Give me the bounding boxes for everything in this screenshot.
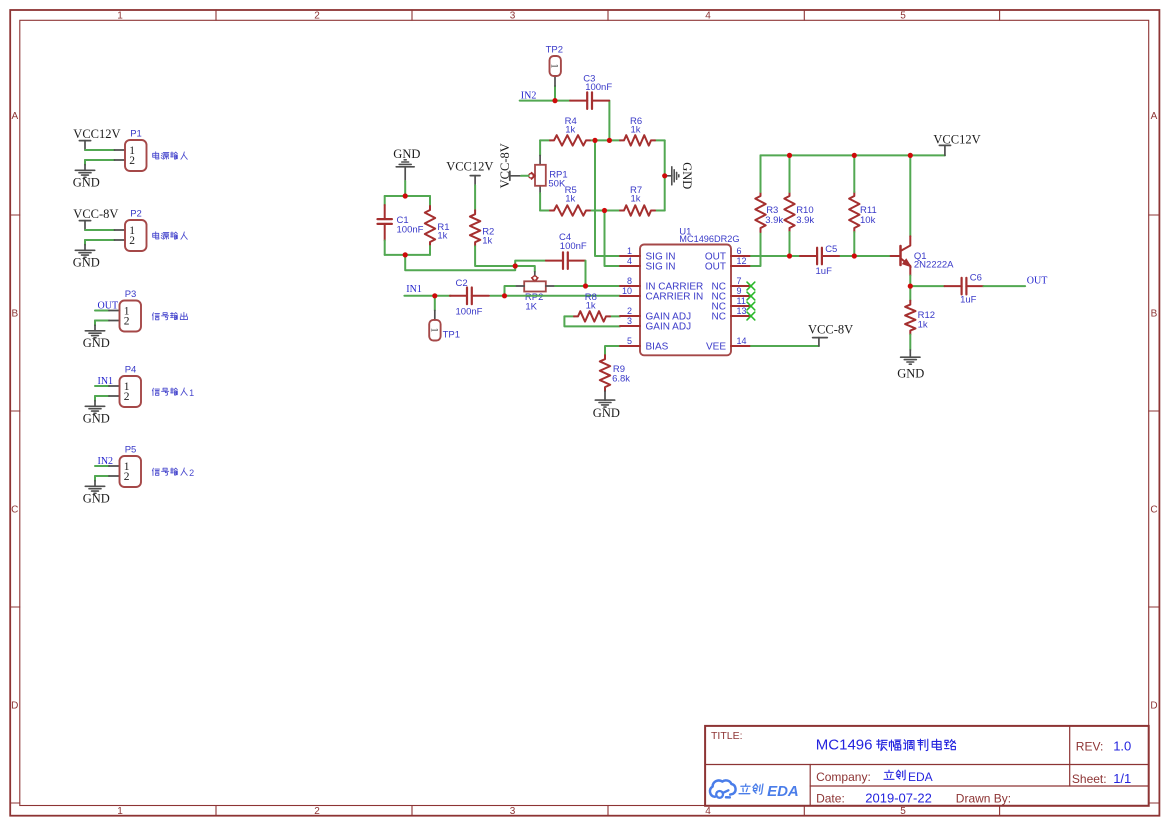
wire IN1 to P4 pin 1 — [95, 385, 109, 387]
svg-text:50K: 50K — [548, 179, 566, 190]
svg-text:100nF: 100nF — [585, 82, 612, 93]
svg-text:1k: 1k — [918, 320, 928, 331]
svg-text:VCC12V: VCC12V — [933, 133, 980, 147]
wire P1 pin 2 to ground — [85, 160, 115, 165]
label 电源输入 — [153, 152, 188, 160]
resistor R7 — [620, 205, 655, 215]
label R4 1k — [565, 116, 577, 136]
svg-text:VCC-8V: VCC-8V — [73, 207, 118, 221]
wire VCC12V top rail — [761, 154, 945, 156]
net label OUT — [1027, 275, 1048, 286]
svg-text:8: 8 — [627, 276, 632, 286]
svg-text:1K: 1K — [525, 301, 537, 312]
capacitor C1 — [378, 205, 392, 241]
connector P1 — [115, 129, 147, 172]
svg-text:VCC-8V: VCC-8V — [808, 323, 853, 337]
logo — [710, 780, 799, 800]
no-connect flag pin — [747, 282, 755, 290]
wire GND to C1/R1 top rail — [385, 181, 430, 206]
wire R10 — [789, 155, 791, 256]
label R5 1k — [565, 185, 577, 205]
svg-text:5: 5 — [900, 806, 906, 817]
svg-text:3: 3 — [510, 806, 516, 817]
svg-text:1: 1 — [189, 388, 194, 398]
svg-text:Company:: Company: — [816, 770, 871, 784]
ground — [73, 245, 100, 270]
svg-text:1: 1 — [428, 328, 438, 333]
resistor R3 — [755, 192, 765, 232]
label C4 100nF — [559, 232, 587, 252]
label R2 1k — [482, 227, 494, 247]
svg-text:3: 3 — [510, 11, 516, 22]
svg-text:2019-07-22: 2019-07-22 — [865, 790, 932, 805]
svg-text:100nF: 100nF — [397, 224, 424, 235]
svg-text:EDA: EDA — [908, 770, 933, 784]
svg-text:GND: GND — [83, 412, 110, 426]
svg-text:VCC12V: VCC12V — [73, 127, 120, 141]
svg-text:5: 5 — [627, 336, 632, 346]
label 信号输入2 — [152, 468, 194, 478]
wire VCC12V to R2 — [474, 185, 476, 210]
svg-text:12: 12 — [737, 256, 747, 266]
wire VCC12V to P1 pin 1 — [85, 149, 115, 151]
label C3 100nF — [583, 73, 612, 93]
svg-text:10: 10 — [622, 286, 632, 296]
svg-text:2: 2 — [314, 11, 320, 22]
power flag VCC-8V (VEE) — [808, 323, 853, 346]
wire Q1 emitter — [909, 276, 911, 287]
wire R5 row — [540, 210, 665, 212]
wire R4 row — [540, 139, 665, 141]
power flag VCC12V (rail) — [933, 133, 980, 156]
net label IN1 — [406, 284, 422, 295]
svg-text:100nF: 100nF — [456, 307, 483, 318]
svg-text:A: A — [11, 111, 18, 122]
junction rail / R10 — [787, 153, 792, 158]
junction rail / Q1 — [908, 153, 913, 158]
svg-text:1uF: 1uF — [960, 295, 977, 306]
capacitor C5 — [800, 248, 839, 265]
wire VCC-8V to RP1 wiper — [521, 175, 529, 177]
svg-text:1k: 1k — [565, 193, 575, 204]
svg-text:D: D — [11, 701, 18, 712]
label R10 3.9k — [796, 205, 814, 226]
wire P3 pin 2 to ground — [95, 321, 109, 326]
power flag VCC-8V — [73, 207, 118, 230]
svg-text:2: 2 — [314, 806, 320, 817]
svg-text:VCC12V: VCC12V — [446, 160, 493, 174]
label R6 1k — [630, 116, 642, 136]
svg-text:13: 13 — [737, 306, 747, 316]
transistor Q1 2N2222A — [891, 236, 955, 275]
capacitor C4 — [546, 252, 585, 269]
power flag VCC-8V (RP1 wiper) — [498, 143, 521, 188]
wire to U1 pin 4 — [605, 211, 621, 267]
no-connect flag pin — [747, 302, 755, 310]
svg-text:1k: 1k — [437, 231, 447, 242]
svg-text:1uF: 1uF — [816, 266, 833, 277]
label R9 6.8k — [612, 364, 630, 385]
label R1 1k — [437, 222, 449, 242]
svg-text:C: C — [1150, 505, 1157, 516]
junction pin6 row / R10 — [787, 253, 792, 258]
wire P5 pin 2 to ground — [95, 476, 109, 481]
ground (below R12) — [897, 335, 924, 381]
svg-text:GND: GND — [83, 336, 110, 350]
wire U1 pin 6 row — [751, 255, 892, 257]
svg-text:4: 4 — [627, 256, 632, 266]
wire RP2 right / pin 8 row — [555, 285, 620, 287]
resistor R1 — [425, 206, 435, 246]
label C2 100nF — [456, 278, 483, 318]
svg-text:2: 2 — [124, 391, 130, 403]
svg-text:REV:: REV: — [1076, 740, 1104, 754]
label 信号输入1 — [152, 388, 194, 398]
wire R11 — [853, 155, 855, 256]
svg-text:TP1: TP1 — [443, 329, 460, 340]
wire C6 to OUT — [984, 285, 1026, 287]
svg-text:1k: 1k — [631, 125, 641, 136]
wire right vertical R6-R7 — [664, 140, 666, 210]
wire Q1 collector — [909, 155, 911, 236]
svg-text:4: 4 — [705, 806, 711, 817]
svg-text:11: 11 — [737, 296, 746, 306]
resistor R6 — [620, 135, 655, 145]
svg-text:1: 1 — [117, 806, 123, 817]
label R11 10k — [860, 205, 877, 226]
wire U1 pin 14 (VEE) — [751, 345, 819, 347]
label R7 1k — [630, 185, 642, 205]
ground — [83, 325, 110, 350]
svg-text:2: 2 — [189, 468, 194, 478]
svg-text:GND: GND — [73, 176, 100, 190]
svg-text:1.0: 1.0 — [1113, 739, 1131, 754]
svg-text:B: B — [1151, 309, 1158, 320]
svg-text:6: 6 — [737, 246, 742, 256]
svg-text:P2: P2 — [130, 209, 142, 220]
wire RP2 left to IN1 row — [505, 286, 515, 296]
svg-text:3: 3 — [627, 316, 632, 326]
wire emitter to C6 — [910, 285, 945, 287]
IC U1 MC1496DR2G — [620, 226, 751, 355]
svg-text:10k: 10k — [860, 215, 876, 226]
svg-text:P4: P4 — [125, 365, 137, 376]
wire node to RP2 wiper — [515, 266, 535, 272]
connector P5 — [109, 445, 141, 488]
svg-text:SIG IN: SIG IN — [646, 262, 676, 273]
junction GND tap — [662, 173, 667, 178]
resistor R8 — [574, 311, 610, 321]
capacitor C6 — [945, 278, 984, 295]
junction IN1/RP2 — [502, 293, 507, 298]
power flag VCC12V (R2) — [446, 160, 493, 186]
svg-text:2: 2 — [627, 306, 632, 316]
svg-text:VCC-8V: VCC-8V — [498, 143, 512, 188]
junction C1/R1 bottom — [403, 252, 408, 257]
svg-text:GAIN ADJ: GAIN ADJ — [646, 322, 692, 333]
svg-text:GND: GND — [680, 162, 694, 189]
svg-text:VEE: VEE — [706, 342, 726, 353]
potentiometer RP2 — [515, 272, 555, 313]
power flag VCC12V — [73, 127, 120, 150]
wire node to C4 — [515, 261, 545, 266]
no-connect flag pin — [747, 292, 755, 300]
potentiometer RP1 — [529, 156, 568, 194]
svg-text:3.9k: 3.9k — [796, 215, 814, 226]
svg-text:3.9k: 3.9k — [765, 215, 783, 226]
svg-text:14: 14 — [737, 336, 747, 346]
wire P2 pin 2 to ground — [85, 240, 115, 245]
label 电源输入 — [153, 232, 188, 240]
junction pin6 row / R11 — [852, 253, 857, 258]
svg-text:IN1: IN1 — [406, 284, 422, 295]
svg-text:2N2222A: 2N2222A — [914, 260, 954, 271]
label R8 1k — [585, 292, 597, 312]
test point TP2 — [546, 44, 563, 86]
svg-text:CARRIER IN: CARRIER IN — [646, 292, 704, 303]
svg-text:1: 1 — [549, 64, 559, 69]
wire U1 pin 12 to R3 — [751, 232, 761, 266]
wire C1/R1 bottom to node — [405, 255, 515, 270]
junction R4 row / pin1 branch — [592, 138, 597, 143]
wire RP1 top — [539, 140, 541, 155]
label C6 1uF — [960, 272, 982, 305]
svg-text:GND: GND — [897, 367, 924, 381]
label R3 3.9k — [765, 205, 783, 226]
junction R4 row / C3 branch — [607, 138, 612, 143]
svg-text:5: 5 — [900, 11, 906, 22]
wire net IN1 — [404, 295, 620, 297]
svg-text:1k: 1k — [631, 193, 641, 204]
resistor R5 — [550, 205, 590, 215]
test point TP1 — [428, 296, 460, 341]
svg-text:1: 1 — [117, 11, 123, 22]
junction IN1/TP1 — [432, 293, 437, 298]
svg-text:D: D — [1150, 701, 1157, 712]
svg-text:Date:: Date: — [816, 791, 845, 805]
svg-text:7: 7 — [737, 276, 742, 286]
junction rail / R11 — [852, 153, 857, 158]
svg-text:GND: GND — [393, 147, 420, 161]
svg-text:B: B — [11, 309, 18, 320]
wire net IN2 — [520, 86, 610, 140]
wire to U1 pin 1 — [595, 140, 620, 256]
svg-text:2: 2 — [124, 315, 130, 327]
svg-text:OUT: OUT — [1027, 275, 1048, 286]
resistor R12 — [905, 301, 915, 335]
svg-text:GND: GND — [593, 406, 620, 420]
svg-text:TITLE:: TITLE: — [711, 730, 743, 742]
svg-text:MC1496: MC1496 — [816, 737, 873, 754]
svg-text:1: 1 — [627, 246, 632, 256]
svg-text:2: 2 — [129, 155, 135, 167]
junction node A — [513, 263, 518, 268]
resistor R4 — [550, 135, 590, 145]
net label IN1 — [98, 376, 114, 387]
svg-text:TP2: TP2 — [546, 44, 563, 55]
svg-text:1/1: 1/1 — [1113, 771, 1131, 786]
net label IN2 — [98, 456, 114, 467]
capacitor C3 — [570, 92, 609, 109]
svg-text:OUT: OUT — [705, 262, 726, 273]
connector P3 — [109, 289, 141, 332]
wire OUT to P3 pin 1 — [95, 310, 109, 312]
ground — [83, 481, 110, 506]
svg-text:2: 2 — [129, 235, 135, 247]
svg-text:GND: GND — [73, 256, 100, 270]
ground (right of R6) — [665, 162, 694, 189]
junction C1/R1 top — [403, 193, 408, 198]
wire P4 pin 2 to ground — [95, 396, 109, 401]
label R12 1k — [918, 310, 935, 331]
label 信号输出 — [152, 312, 187, 320]
resistor R2 — [470, 210, 480, 246]
svg-text:1k: 1k — [565, 125, 575, 136]
connector P2 — [115, 209, 147, 252]
wire RP1 bottom — [539, 193, 541, 210]
svg-text:C6: C6 — [970, 272, 982, 283]
wire C1/R1 bottom rail — [385, 241, 430, 255]
wire VCC-8V to P2 pin 1 — [85, 229, 115, 231]
svg-text:EDA: EDA — [767, 783, 799, 800]
svg-text:P3: P3 — [125, 289, 137, 300]
wire C4 to pin 8 row — [585, 261, 587, 286]
net label IN2 — [521, 90, 537, 101]
wire U1 pin 5 to R9 — [605, 346, 620, 355]
wire R2 to node — [475, 246, 515, 266]
svg-text:C: C — [11, 505, 18, 516]
svg-text:Sheet:: Sheet: — [1072, 772, 1107, 786]
svg-text:C5: C5 — [825, 244, 837, 255]
junction IN2/TP2 — [552, 98, 557, 103]
svg-text:1k: 1k — [586, 301, 596, 312]
svg-text:P5: P5 — [125, 445, 137, 456]
svg-text:NC: NC — [712, 312, 726, 323]
wire emitter to R12 — [909, 286, 911, 301]
svg-text:9: 9 — [737, 286, 742, 296]
svg-text:6.8k: 6.8k — [612, 373, 630, 384]
ground (below R9) — [593, 391, 620, 420]
no-connect flag pin — [747, 312, 755, 320]
capacitor C2 — [450, 288, 489, 305]
svg-text:BIAS: BIAS — [646, 342, 669, 353]
svg-text:100nF: 100nF — [560, 241, 587, 252]
svg-text:2: 2 — [124, 471, 130, 483]
svg-text:4: 4 — [705, 11, 711, 22]
svg-text:A: A — [1151, 111, 1158, 122]
ground (above C1) — [393, 147, 420, 181]
svg-text:MC1496DR2G: MC1496DR2G — [679, 234, 739, 244]
ground — [83, 401, 110, 426]
junction pin8 row / C4 — [583, 283, 588, 288]
wire R8 loop — [564, 316, 620, 326]
junction R5 row / pin4 branch — [602, 208, 607, 213]
junction emitter node — [908, 284, 913, 289]
net label OUT — [98, 300, 119, 311]
svg-text:Drawn By:: Drawn By: — [956, 791, 1011, 805]
svg-text:P1: P1 — [130, 129, 142, 140]
label C1 100nF — [397, 215, 424, 235]
ground — [73, 165, 100, 190]
svg-text:1k: 1k — [482, 236, 492, 247]
label C5 1uF — [816, 244, 838, 277]
svg-text:GND: GND — [83, 492, 110, 506]
wire R3 top — [760, 155, 762, 192]
resistor R10 — [784, 192, 794, 232]
connector P4 — [109, 365, 141, 408]
svg-text:C2: C2 — [456, 278, 468, 289]
resistor R9 — [600, 355, 610, 391]
wire IN2 to P5 pin 1 — [95, 465, 109, 467]
resistor R11 — [849, 192, 859, 232]
